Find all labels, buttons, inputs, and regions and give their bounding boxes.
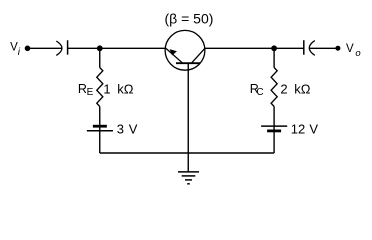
battery V1 short negative plate bbox=[93, 125, 107, 128]
battery V2 short negative plate bbox=[267, 129, 281, 132]
wire collector node to C2 bbox=[205, 47, 304, 49]
node Vi input terminal dot bbox=[25, 46, 31, 52]
transistor Q1 circle bbox=[165, 30, 205, 70]
svg-text:E: E bbox=[87, 87, 94, 98]
label RC bbox=[250, 82, 264, 98]
wire collector node down to RC bbox=[273, 48, 275, 67]
wire bottom rail bbox=[100, 152, 274, 154]
ground symbol bbox=[178, 172, 199, 184]
wire C1 to emitter node bbox=[68, 47, 167, 49]
resistor RE zigzag bbox=[97, 68, 103, 107]
label 1 kOhm bbox=[103, 81, 133, 96]
capacitor C2 curved plate bbox=[309, 41, 315, 56]
wire Q1 base lead to ground bbox=[187, 63, 189, 172]
battery V2 long positive plate bbox=[261, 125, 287, 127]
capacitor C1 curved plate bbox=[56, 41, 62, 55]
wire RE to battery V1 bbox=[99, 107, 101, 154]
svg-text:3: 3 bbox=[117, 122, 124, 137]
node C junction dot bbox=[271, 45, 277, 51]
resistor RC zigzag bbox=[271, 68, 277, 107]
transistor Q1 emitter diagonal bbox=[166, 49, 183, 64]
node E junction dot bbox=[97, 45, 103, 51]
svg-text:(β = 50): (β = 50) bbox=[165, 10, 214, 26]
svg-text:kΩ: kΩ bbox=[117, 81, 134, 96]
svg-text:i: i bbox=[18, 47, 21, 58]
label 3 V bbox=[117, 122, 138, 137]
svg-text:R: R bbox=[78, 82, 87, 96]
svg-text:V: V bbox=[309, 122, 318, 137]
capacitor C1 straight plate bbox=[67, 40, 69, 54]
svg-text:o: o bbox=[355, 48, 360, 59]
wire emitter node down to RE bbox=[99, 48, 101, 67]
svg-text:2: 2 bbox=[280, 81, 287, 96]
transistor Q1 emitter arrow bbox=[170, 49, 177, 55]
svg-text:1: 1 bbox=[103, 81, 110, 96]
label 12 V bbox=[291, 122, 319, 137]
label 2 kOhm bbox=[280, 81, 310, 96]
capacitor C2 straight plate bbox=[303, 40, 305, 55]
wire C2 to Vo bbox=[310, 47, 338, 49]
svg-text:kΩ: kΩ bbox=[294, 81, 311, 96]
svg-text:V: V bbox=[129, 122, 138, 137]
label beta = 50 bbox=[165, 10, 214, 26]
transistor Q1 base bar bbox=[176, 62, 200, 64]
svg-text:12: 12 bbox=[291, 122, 305, 137]
label RE bbox=[78, 82, 94, 98]
svg-text:V: V bbox=[346, 43, 354, 55]
label Vo bbox=[346, 43, 361, 59]
node Vo output terminal dot bbox=[335, 46, 340, 51]
svg-text:C: C bbox=[256, 87, 263, 98]
transistor Q1 collector diagonal bbox=[191, 48, 205, 63]
label Vi bbox=[10, 42, 21, 59]
wire RC to battery V2 bbox=[273, 107, 275, 154]
wire Vi to C1 bbox=[30, 47, 62, 49]
battery V1 long positive plate bbox=[87, 130, 113, 132]
